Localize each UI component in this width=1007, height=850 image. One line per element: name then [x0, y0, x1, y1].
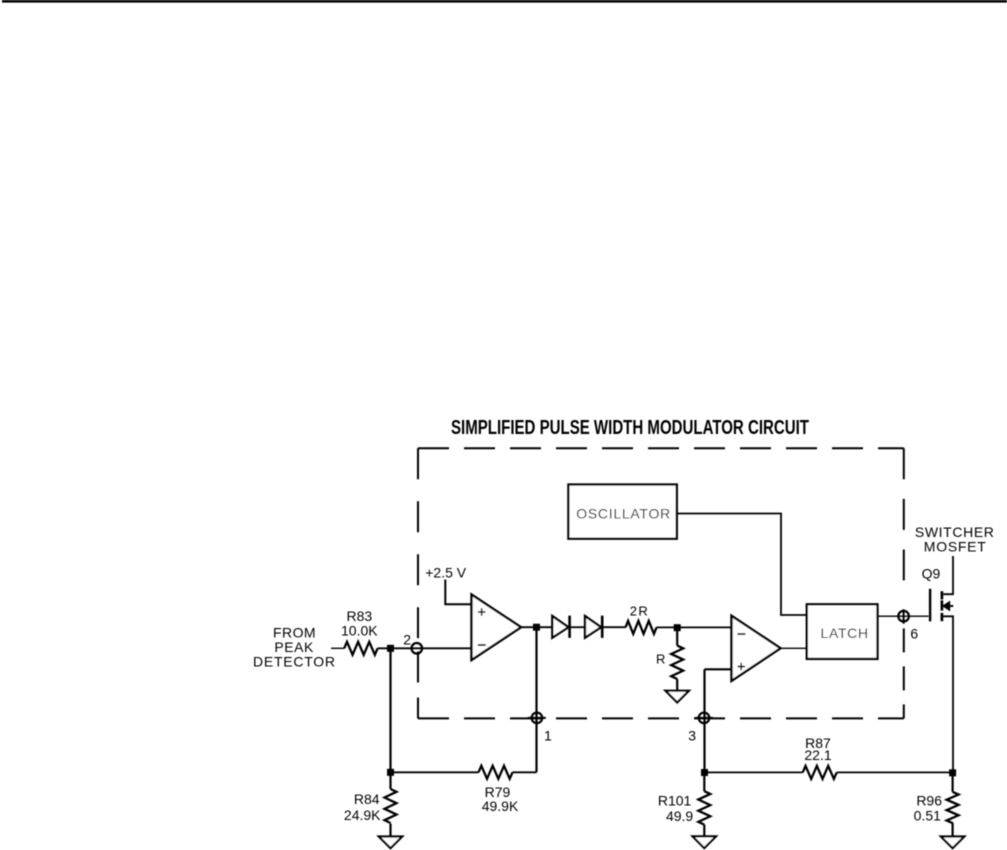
svg-text:0.51: 0.51: [914, 808, 941, 824]
svg-text:+2.5 V: +2.5 V: [425, 564, 467, 580]
svg-text:22.1: 22.1: [804, 747, 831, 763]
svg-text:R101: R101: [658, 792, 692, 808]
svg-text:DETECTOR: DETECTOR: [253, 654, 335, 670]
svg-text:R: R: [656, 652, 665, 667]
svg-text:3: 3: [688, 728, 696, 744]
svg-text:6: 6: [910, 625, 918, 641]
svg-text:Q9: Q9: [922, 566, 941, 582]
svg-text:LATCH: LATCH: [821, 625, 869, 641]
svg-text:OSCILLATOR: OSCILLATOR: [576, 506, 670, 522]
svg-text:10.0K: 10.0K: [341, 623, 378, 639]
svg-text:FROM: FROM: [273, 624, 316, 640]
svg-text:1: 1: [544, 728, 552, 744]
svg-text:R96: R96: [916, 793, 942, 809]
svg-text:24.9K: 24.9K: [344, 807, 381, 823]
svg-text:SIMPLIFIED PULSE WIDTH MODULAT: SIMPLIFIED PULSE WIDTH MODULATOR CIRCUIT: [451, 417, 809, 439]
svg-text:49.9K: 49.9K: [482, 798, 519, 814]
svg-text:49.9: 49.9: [666, 808, 693, 824]
svg-text:R84: R84: [354, 791, 380, 807]
svg-text:2: 2: [403, 631, 411, 647]
svg-text:MOSFET: MOSFET: [924, 538, 986, 554]
svg-text:2R: 2R: [630, 603, 648, 618]
